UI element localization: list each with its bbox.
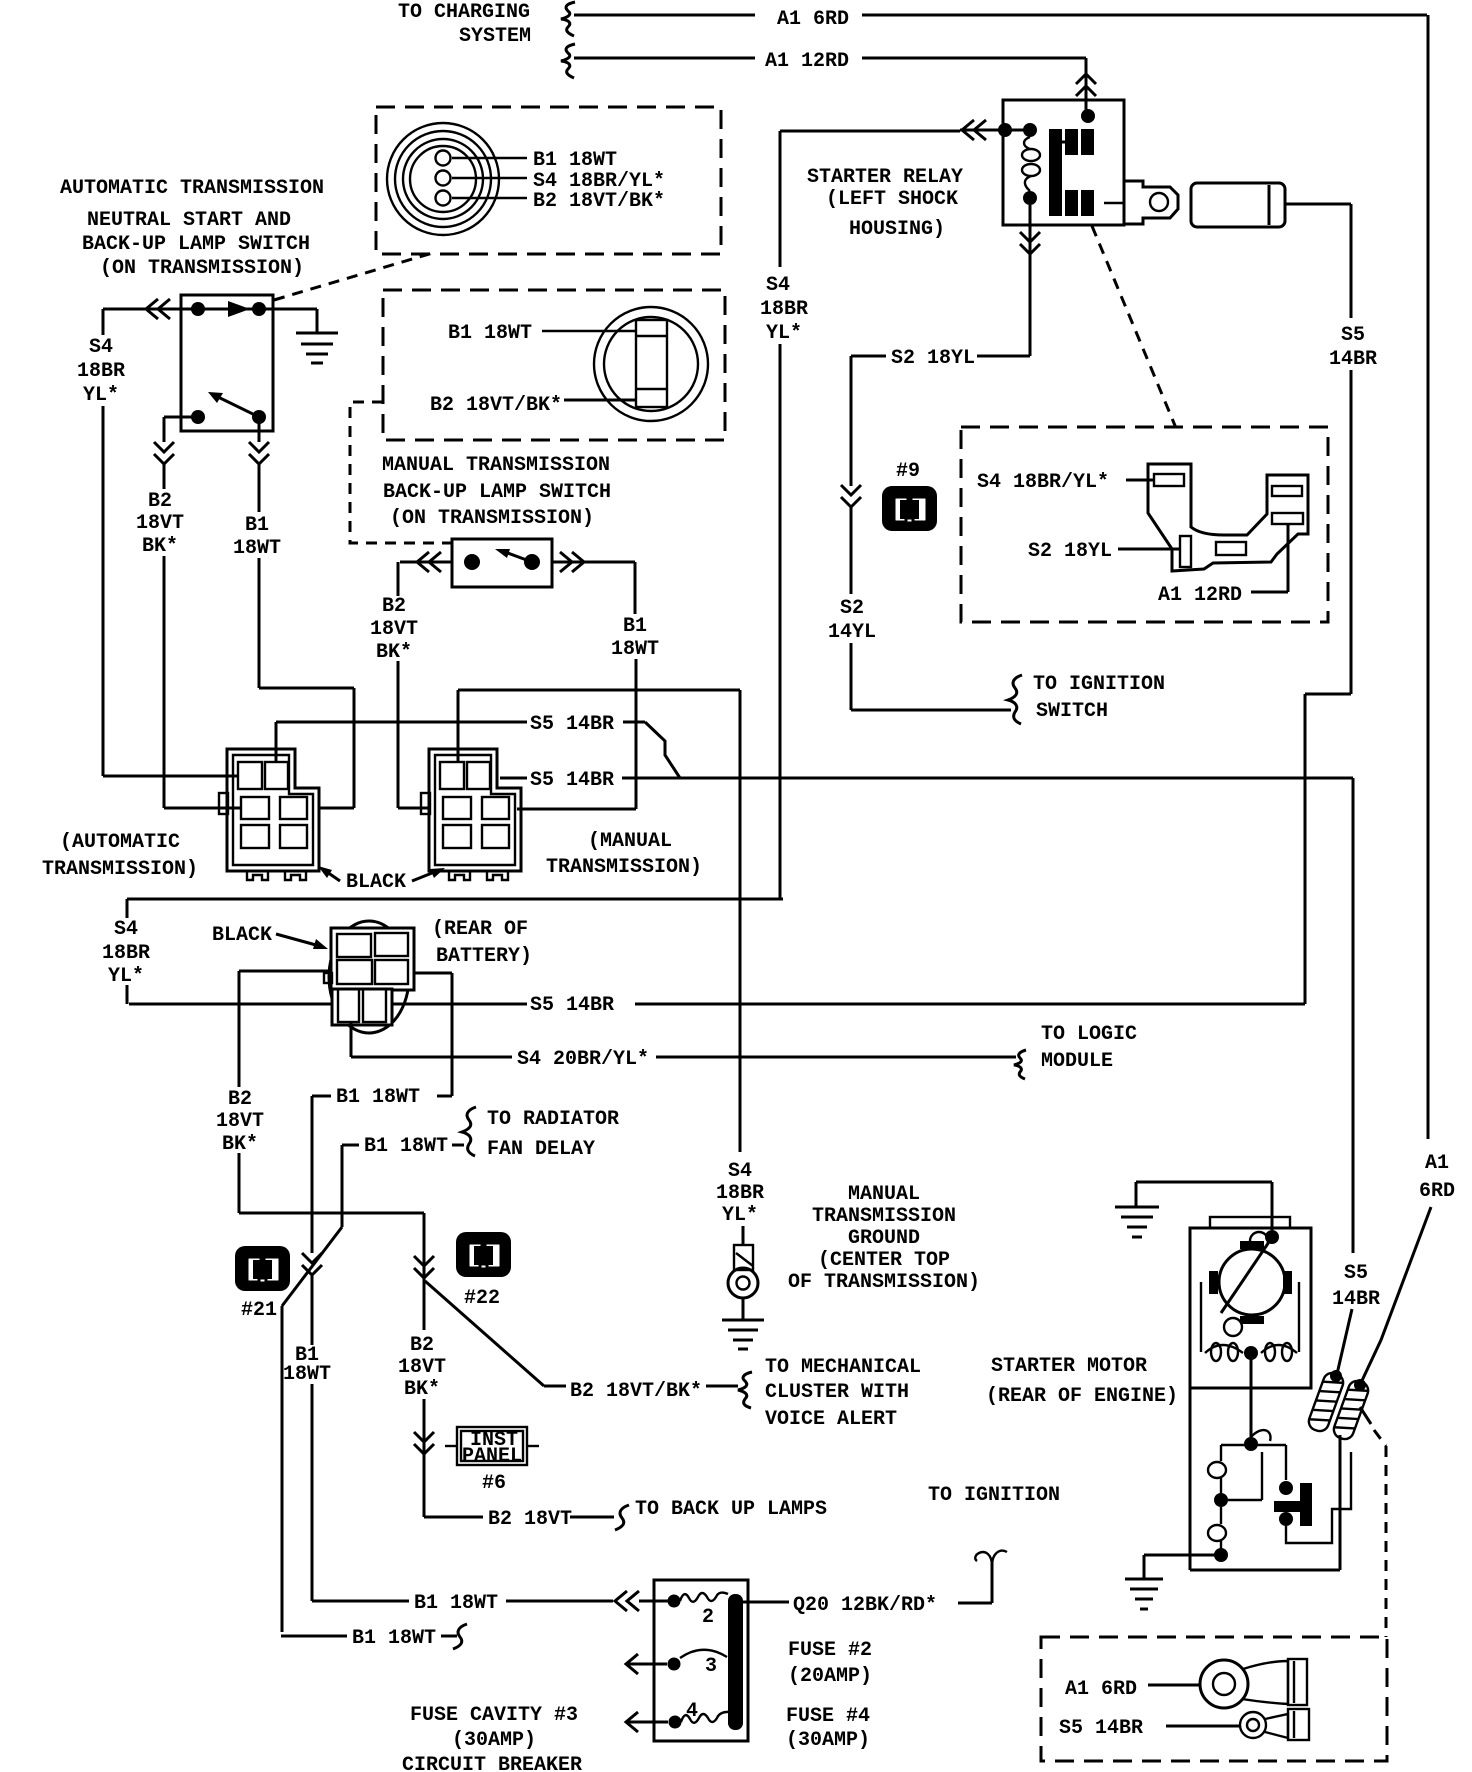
svg-text:TO BACK UP LAMPS: TO BACK UP LAMPS [635,1498,827,1521]
svg-text:6RD: 6RD [1419,1180,1455,1203]
svg-text:B1: B1 [623,615,647,638]
svg-text:S5: S5 [1344,1262,1368,1285]
svg-text:SWITCH: SWITCH [1036,700,1108,723]
svg-text:B1 18WT: B1 18WT [448,322,532,345]
svg-text:FUSE #4: FUSE #4 [786,1705,870,1728]
svg-text:TRANSMISSION: TRANSMISSION [812,1205,956,1228]
svg-text:BATTERY): BATTERY) [436,945,532,968]
svg-text:CIRCUIT BREAKER: CIRCUIT BREAKER [402,1754,582,1772]
svg-text:(REAR OF: (REAR OF [432,918,528,941]
svg-text:18WT: 18WT [611,638,659,661]
svg-text:TRANSMISSION): TRANSMISSION) [546,856,702,879]
svg-text:PANEL: PANEL [462,1445,522,1468]
svg-text:18VT: 18VT [398,1356,446,1379]
svg-text:STARTER MOTOR: STARTER MOTOR [991,1355,1147,1378]
svg-text:18BR: 18BR [77,360,125,383]
svg-text:S4: S4 [89,336,113,359]
svg-text:OF TRANSMISSION): OF TRANSMISSION) [788,1271,980,1294]
svg-text:HOUSING): HOUSING) [849,218,945,241]
svg-text:(LEFT SHOCK: (LEFT SHOCK [826,188,958,211]
svg-text:S2 18YL: S2 18YL [1028,540,1112,563]
svg-text:YL*: YL* [108,965,144,988]
svg-text:B2: B2 [228,1088,252,1111]
svg-text:YL*: YL* [722,1204,758,1227]
svg-text:S2 18YL: S2 18YL [891,347,975,370]
svg-text:TO IGNITION: TO IGNITION [1033,673,1165,696]
svg-text:B1 18WT: B1 18WT [352,1627,436,1650]
svg-text:BK*: BK* [222,1133,258,1156]
svg-text:S4: S4 [728,1160,752,1183]
svg-text:14YL: 14YL [828,621,876,644]
svg-text:18BR: 18BR [102,942,150,965]
svg-text:GROUND: GROUND [848,1227,920,1250]
svg-text:(MANUAL: (MANUAL [588,830,672,853]
svg-text:S5 14BR: S5 14BR [530,994,614,1017]
svg-text:(30AMP): (30AMP) [786,1729,870,1752]
svg-text:18VT: 18VT [370,618,418,641]
svg-text:BACK-UP LAMP SWITCH: BACK-UP LAMP SWITCH [383,481,611,504]
svg-text:#21: #21 [241,1299,277,1322]
svg-text:B2: B2 [382,595,406,618]
svg-text:S4: S4 [114,918,138,941]
svg-text:A1: A1 [1425,1152,1449,1175]
svg-text:YL*: YL* [83,384,119,407]
svg-text:3: 3 [705,1655,717,1678]
svg-text:YL*: YL* [766,322,802,345]
svg-text:B2 18VT/BK*: B2 18VT/BK* [570,1380,702,1403]
svg-text:4: 4 [686,1700,698,1723]
svg-text:S4: S4 [766,274,790,297]
svg-text:B1 18WT: B1 18WT [533,149,617,172]
svg-text:18BR: 18BR [760,298,808,321]
svg-text:BK*: BK* [142,535,178,558]
svg-text:B1 18WT: B1 18WT [336,1086,420,1109]
svg-text:S5: S5 [1341,324,1365,347]
svg-text:(AUTOMATIC: (AUTOMATIC [60,831,180,854]
svg-text:18BR: 18BR [716,1182,764,1205]
svg-text:A1 6RD: A1 6RD [1065,1678,1137,1701]
svg-text:S5 14BR: S5 14BR [530,769,614,792]
svg-text:18VT: 18VT [216,1110,264,1133]
svg-text:VOICE ALERT: VOICE ALERT [765,1408,897,1431]
svg-text:SYSTEM: SYSTEM [459,25,531,48]
svg-text:#9: #9 [896,460,920,483]
svg-text:B2 18VT/BK*: B2 18VT/BK* [430,394,562,417]
svg-text:S2: S2 [840,597,864,620]
svg-text:A1 12RD: A1 12RD [765,50,849,73]
svg-text:#22: #22 [464,1287,500,1310]
svg-text:TO MECHANICAL: TO MECHANICAL [765,1356,921,1379]
svg-text:TO CHARGING: TO CHARGING [398,1,530,24]
svg-text:(REAR OF ENGINE): (REAR OF ENGINE) [986,1385,1178,1408]
svg-text:14BR: 14BR [1329,348,1377,371]
svg-text:TRANSMISSION): TRANSMISSION) [42,858,198,881]
svg-text:14BR: 14BR [1332,1288,1380,1311]
svg-text:S4 20BR/YL*: S4 20BR/YL* [517,1048,649,1071]
svg-text:TO IGNITION: TO IGNITION [928,1484,1060,1507]
svg-text:MODULE: MODULE [1041,1050,1113,1073]
svg-text:B2 18VT: B2 18VT [488,1508,572,1531]
svg-text:BK*: BK* [404,1378,440,1401]
svg-text:B2: B2 [148,490,172,513]
svg-text:AUTOMATIC TRANSMISSION: AUTOMATIC TRANSMISSION [60,177,324,200]
svg-text:A1 6RD: A1 6RD [777,8,849,31]
svg-text:BK*: BK* [376,641,412,664]
svg-text:(30AMP): (30AMP) [452,1729,536,1752]
svg-text:(ON TRANSMISSION): (ON TRANSMISSION) [390,507,594,530]
svg-text:BLACK: BLACK [346,871,406,894]
svg-text:MANUAL: MANUAL [848,1183,920,1206]
svg-text:S5 14BR: S5 14BR [1059,1717,1143,1740]
svg-text:A1 12RD: A1 12RD [1158,584,1242,607]
svg-text:#6: #6 [482,1472,506,1495]
svg-text:B2: B2 [410,1334,434,1357]
svg-text:B1 18WT: B1 18WT [414,1592,498,1615]
svg-text:(ON TRANSMISSION): (ON TRANSMISSION) [100,257,304,280]
svg-text:S5 14BR: S5 14BR [530,713,614,736]
svg-text:18WT: 18WT [283,1363,331,1386]
svg-text:B1 18WT: B1 18WT [364,1135,448,1158]
svg-text:18VT: 18VT [136,512,184,535]
svg-text:(20AMP): (20AMP) [788,1665,872,1688]
svg-text:NEUTRAL START AND: NEUTRAL START AND [87,209,291,232]
svg-text:TO LOGIC: TO LOGIC [1041,1023,1137,1046]
svg-text:18WT: 18WT [233,537,281,560]
svg-text:B2 18VT/BK*: B2 18VT/BK* [533,190,665,213]
svg-text:BACK-UP LAMP SWITCH: BACK-UP LAMP SWITCH [82,233,310,256]
svg-text:(CENTER TOP: (CENTER TOP [818,1249,950,1272]
svg-text:CLUSTER WITH: CLUSTER WITH [765,1381,909,1404]
svg-text:FUSE #2: FUSE #2 [788,1639,872,1662]
svg-text:S4 18BR/YL*: S4 18BR/YL* [977,471,1109,494]
svg-text:FUSE CAVITY #3: FUSE CAVITY #3 [410,1704,578,1727]
svg-text:BLACK: BLACK [212,924,272,947]
svg-text:STARTER RELAY: STARTER RELAY [807,166,963,189]
svg-text:MANUAL TRANSMISSION: MANUAL TRANSMISSION [382,454,610,477]
svg-text:Q20 12BK/RD*: Q20 12BK/RD* [793,1594,937,1617]
svg-text:2: 2 [702,1606,714,1629]
svg-text:TO RADIATOR: TO RADIATOR [487,1108,619,1131]
svg-text:B1: B1 [245,514,269,537]
svg-text:FAN DELAY: FAN DELAY [487,1138,595,1161]
